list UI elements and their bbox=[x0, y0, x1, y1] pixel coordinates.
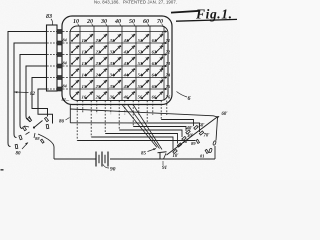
page speck bbox=[1, 169, 4, 171]
staircase run for column 50 bbox=[133, 127, 186, 132]
pin link row 1 (dashed) bbox=[63, 31, 71, 33]
svg-text:72: 72 bbox=[166, 49, 171, 54]
selector contact 60' with arrowhead bbox=[216, 116, 219, 119]
svg-text:84: 84 bbox=[63, 38, 67, 43]
svg-text:73: 73 bbox=[166, 61, 171, 66]
switch 13 bbox=[71, 57, 87, 66]
switch 72 bbox=[155, 45, 171, 54]
selector contact pad 4 bbox=[27, 117, 31, 121]
staircase run for column 70 bbox=[161, 120, 193, 127]
terminal pin 84 row 2 bbox=[57, 41, 62, 45]
staircase run for column 40 bbox=[119, 130, 182, 137]
switch 41 bbox=[113, 34, 128, 43]
connector block 83 bbox=[47, 25, 58, 91]
staircase right vertical bbox=[216, 118, 218, 141]
staircase top right corner to 60 prime bbox=[214, 116, 218, 117]
svg-text:75: 75 bbox=[166, 84, 171, 89]
column 10 lead (dashed pair) bbox=[76, 101, 78, 141]
selector arm blade bbox=[34, 121, 43, 128]
svg-text:70′: 70′ bbox=[204, 134, 211, 139]
selector contact pad 3 bbox=[23, 126, 27, 130]
switch 14 bbox=[71, 68, 87, 77]
wire row 1 to selector 80 bbox=[8, 32, 47, 147]
oval contact b bbox=[209, 148, 213, 153]
switch 34 bbox=[99, 68, 115, 77]
column 30 lead (dashed pair) bbox=[104, 101, 106, 134]
column wire 40 bbox=[121, 26, 123, 101]
bottom circuit wire bbox=[54, 158, 96, 160]
switch 46 bbox=[113, 91, 129, 99]
switch 24 bbox=[85, 68, 101, 77]
column 20 lead (dashed pair) bbox=[90, 101, 92, 138]
wire row 5 to selector 80 bbox=[32, 78, 48, 117]
selector contact 10′ bbox=[173, 149, 177, 153]
block internal wire row 6 bbox=[47, 88, 57, 90]
staircase run for column 20 bbox=[91, 137, 173, 150]
svg-text:82: 82 bbox=[30, 92, 36, 97]
switch 16 bbox=[71, 91, 87, 99]
switch 74 bbox=[155, 68, 171, 77]
terminal pin 84 row 1 bbox=[57, 30, 62, 34]
column 40 lead (dashed pair) bbox=[118, 101, 120, 131]
wire 86 (common return, left hook) bbox=[69, 105, 71, 123]
selector switch 80 hub bbox=[33, 126, 35, 128]
column wire 10 bbox=[79, 26, 81, 101]
svg-text:91: 91 bbox=[162, 166, 167, 171]
selector contact 30′ bbox=[182, 136, 186, 140]
switch 31 bbox=[99, 34, 114, 43]
pin link row 6 (dashed) bbox=[63, 88, 71, 90]
switch 43 bbox=[113, 57, 129, 66]
block internal wire row 3 bbox=[47, 54, 57, 56]
svg-text:76: 76 bbox=[166, 94, 171, 99]
pin link row 2 (dashed) bbox=[63, 42, 71, 44]
staircase run for column 30 bbox=[105, 134, 177, 144]
svg-text:88: 88 bbox=[35, 136, 40, 141]
column wire 50 bbox=[135, 26, 137, 101]
switch 56 bbox=[127, 91, 143, 99]
block internal wire row 1 bbox=[47, 31, 57, 33]
wire row 3 to selector 80 bbox=[20, 55, 47, 129]
block internal wire row 2 bbox=[47, 42, 57, 44]
figure label Fig.1 bbox=[171, 7, 237, 22]
wire row 6 to selector 80 bbox=[38, 89, 53, 124]
switch 65 bbox=[141, 80, 157, 89]
pin link row 5 (dashed) bbox=[63, 77, 71, 79]
triple lead 85 c bbox=[133, 105, 162, 150]
svg-text:84: 84 bbox=[63, 61, 67, 66]
switch 63 bbox=[141, 57, 157, 66]
switch 32 bbox=[99, 45, 115, 54]
row wire 6 bbox=[70, 88, 167, 90]
terminal pin 84 row 4 bbox=[57, 64, 62, 68]
staircase run for column 60 bbox=[147, 123, 199, 132]
terminal pin 84 row 3 bbox=[57, 53, 62, 57]
wire 86 lower branch bbox=[70, 122, 147, 124]
wire row 4 to selector 80 bbox=[26, 66, 47, 120]
svg-text:10′: 10′ bbox=[173, 154, 180, 159]
switch 42 bbox=[113, 45, 129, 54]
switch 35 bbox=[99, 80, 115, 89]
switch 25 bbox=[85, 80, 101, 89]
wire row 2 to selector 80 bbox=[14, 43, 47, 138]
label 90 with leader bbox=[103, 165, 109, 169]
svg-text:PATENTED JAN. 27, 1907.: PATENTED JAN. 27, 1907. bbox=[123, 0, 177, 5]
switch 66 bbox=[141, 91, 157, 99]
switch 76 bbox=[155, 91, 171, 99]
terminal pin 84 row 5 bbox=[57, 76, 62, 80]
switch 12 bbox=[71, 45, 87, 54]
switch 54 bbox=[127, 68, 143, 77]
column 60 lead (dashed pair) bbox=[146, 101, 148, 124]
switch 64 bbox=[141, 68, 157, 77]
switch 62 bbox=[141, 45, 157, 54]
column wire 70 bbox=[163, 26, 165, 101]
svg-text:90: 90 bbox=[110, 167, 116, 173]
switch 45 bbox=[113, 80, 129, 89]
selector contact 20′ bbox=[177, 143, 181, 147]
pin link row 4 (dashed) bbox=[63, 65, 71, 67]
contact blade near hub 5 bbox=[34, 133, 35, 138]
oval contact a bbox=[213, 141, 217, 146]
switchboard panel (outer frame) bbox=[62, 16, 172, 105]
selector contact pad 5 bbox=[45, 117, 49, 121]
contact blade near hub 2 bbox=[25, 126, 30, 127]
column 50 lead (dashed pair) bbox=[132, 101, 134, 127]
svg-text:80: 80 bbox=[16, 152, 22, 157]
switch 26 bbox=[85, 91, 101, 99]
switch 73 bbox=[155, 57, 171, 66]
switch 21 bbox=[85, 34, 100, 43]
selector contact pad 1 bbox=[15, 144, 18, 148]
block internal wire row 5 bbox=[47, 77, 57, 79]
svg-text:6: 6 bbox=[188, 96, 191, 102]
contact blade near hub 4 bbox=[29, 116, 32, 121]
svg-text:40′: 40′ bbox=[186, 127, 194, 132]
selector contact 70′ bbox=[199, 131, 203, 135]
switch 75 bbox=[155, 80, 171, 89]
switch 71 bbox=[155, 34, 170, 43]
switch 61 bbox=[141, 34, 156, 43]
paper background bbox=[0, 0, 240, 180]
svg-text:81...: 81... bbox=[62, 97, 70, 102]
column wire 60 bbox=[149, 26, 151, 101]
svg-text:50′: 50′ bbox=[199, 124, 206, 129]
row wire 1 bbox=[70, 31, 167, 33]
row wire 5 bbox=[70, 77, 167, 79]
wire from key up to contact a bbox=[214, 146, 216, 159]
switch 44 bbox=[113, 68, 129, 77]
key switch 91 bbox=[158, 152, 167, 159]
svg-text:60′: 60′ bbox=[222, 112, 229, 117]
row wire 3 bbox=[70, 54, 167, 56]
label 6 with leader bbox=[177, 92, 188, 98]
row wire 4 bbox=[70, 65, 167, 67]
wiper arm to 60 prime bbox=[167, 117, 218, 155]
pin link row 3 (dashed) bbox=[63, 54, 71, 56]
switch 36 bbox=[99, 91, 115, 99]
column wire 30 bbox=[107, 26, 109, 101]
svg-text:85: 85 bbox=[141, 152, 147, 157]
switch matrix frame 6 (inner) bbox=[70, 26, 168, 101]
svg-text:71: 71 bbox=[166, 38, 171, 43]
triple lead 85 a bbox=[122, 105, 157, 148]
row wire 2 bbox=[70, 42, 167, 44]
selector contact 40′ bbox=[186, 130, 190, 134]
svg-text:74: 74 bbox=[166, 72, 171, 77]
svg-text:89: 89 bbox=[191, 141, 196, 146]
wire 86 upper branch bbox=[70, 109, 213, 116]
terminal pin 84 row 6 bbox=[57, 87, 62, 91]
switch 15 bbox=[71, 80, 87, 89]
staircase run for column 10 bbox=[77, 140, 195, 142]
svg-text:30′: 30′ bbox=[186, 134, 194, 139]
svg-text:84: 84 bbox=[63, 84, 67, 89]
column wire 20 bbox=[93, 26, 95, 101]
paper grain bbox=[0, 0, 240, 180]
block internal wire row 4 bbox=[47, 65, 57, 67]
svg-text:No. 843,186.: No. 843,186. bbox=[94, 0, 120, 5]
switch 53 bbox=[127, 57, 143, 66]
wire hub to battery line bbox=[38, 134, 54, 159]
column 70 lead (dashed pair) bbox=[160, 101, 162, 120]
battery 90 bbox=[96, 152, 108, 167]
switch 52 bbox=[127, 45, 143, 54]
selector contact 50′ bbox=[194, 125, 198, 129]
switch 33 bbox=[99, 57, 115, 66]
switch 23 bbox=[85, 57, 101, 66]
svg-text:86: 86 bbox=[59, 120, 65, 125]
switch 55 bbox=[127, 80, 143, 89]
switch 11 bbox=[71, 34, 86, 43]
switch 51 bbox=[127, 34, 142, 43]
svg-text:81: 81 bbox=[200, 154, 205, 159]
contact blade near hub 3 bbox=[26, 132, 30, 135]
triple lead 85 b bbox=[128, 105, 160, 149]
selector contact pad 6 bbox=[46, 124, 49, 128]
switch 22 bbox=[85, 45, 101, 54]
contact blade near hub 1 bbox=[27, 119, 31, 123]
selector contact pad 2 bbox=[19, 135, 22, 139]
